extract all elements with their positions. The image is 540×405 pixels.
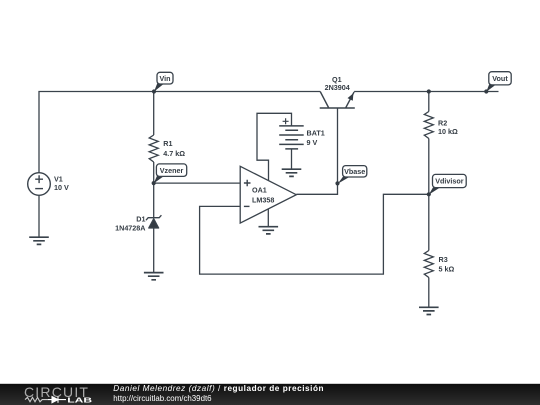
svg-text:OA1: OA1 xyxy=(252,186,267,195)
wire op-amp output to Q1 base xyxy=(296,108,337,194)
wire op-amp V+ pin to BAT1 positive xyxy=(257,113,292,181)
wire Vout rail to R2 top xyxy=(428,92,430,112)
svg-text:D1: D1 xyxy=(136,215,145,224)
label Q1 2N3904 xyxy=(325,75,350,92)
label OA1 LM358 xyxy=(252,186,274,205)
svg-text:R2: R2 xyxy=(438,118,447,127)
svg-text:5 kΩ: 5 kΩ xyxy=(439,264,455,273)
ground (V1) xyxy=(29,237,49,244)
wire D1 anode to ground xyxy=(153,229,155,273)
svg-text:4.7 kΩ: 4.7 kΩ xyxy=(163,149,185,158)
ground (D1) xyxy=(144,273,164,280)
wire BAT1 negative to ground xyxy=(291,149,293,169)
svg-text:1N4728A: 1N4728A xyxy=(115,223,145,232)
ground (BAT1) xyxy=(282,169,302,176)
svg-text:R3: R3 xyxy=(439,255,448,264)
wire R1 bottom to Vzener junction xyxy=(153,162,155,183)
junction dot (R2 top tap on Vout rail) xyxy=(427,89,431,93)
wire Vzener junction to D1 cathode xyxy=(153,183,155,218)
resistor R3 xyxy=(424,251,433,278)
wire Vdivisor junction to R3 top xyxy=(428,194,430,250)
svg-text:10 kΩ: 10 kΩ xyxy=(438,127,458,136)
label R3 5 kOhm xyxy=(439,255,455,273)
node Vzener xyxy=(152,164,187,185)
wire R2 bottom to Vdivisor junction xyxy=(428,139,430,195)
wire Q1 emitter to Vout xyxy=(354,91,498,93)
wire feedback: op-amp - input to Vdivisor xyxy=(200,194,429,274)
resistor R2 xyxy=(424,112,433,139)
svg-text:Vout: Vout xyxy=(492,74,508,83)
node Vin xyxy=(152,72,173,93)
node Vbase xyxy=(335,166,366,186)
label R2 10 kOhm xyxy=(438,118,458,136)
label R1 4.7 kOhm xyxy=(163,139,185,158)
wire R3 bottom to ground xyxy=(428,278,430,308)
svg-text:http://circuitlab.com/ch39dt6: http://circuitlab.com/ch39dt6 xyxy=(113,394,212,403)
op-amp OA1 xyxy=(240,166,296,223)
svg-text:Vin: Vin xyxy=(159,74,170,83)
transistor Q1 xyxy=(320,92,355,109)
svg-text:Vbase: Vbase xyxy=(344,167,365,176)
label D1 1N4728A xyxy=(115,215,145,233)
svg-text:Vzener: Vzener xyxy=(160,166,184,175)
svg-text:R1: R1 xyxy=(163,139,172,148)
ground (R3) xyxy=(419,307,439,314)
svg-text:2N3904: 2N3904 xyxy=(325,83,350,92)
svg-text:BAT1: BAT1 xyxy=(307,128,325,137)
svg-text:9 V: 9 V xyxy=(307,138,318,147)
wire op-amp V- pin to ground xyxy=(267,209,269,227)
node Vdivisor xyxy=(427,174,467,196)
label V1 10 V xyxy=(54,174,69,192)
wire V1 bottom to ground xyxy=(38,195,40,237)
CircuitLab logo xyxy=(24,384,93,405)
footer bar xyxy=(0,384,540,405)
resistor R1 xyxy=(149,135,158,162)
wire Vin junction to R1 top xyxy=(153,92,155,136)
wire Vzener to op-amp + input xyxy=(154,182,241,184)
node Vout xyxy=(484,72,511,94)
svg-text:Daniel Melendrez (dzalf) / reg: Daniel Melendrez (dzalf) / regulador de … xyxy=(113,384,324,393)
svg-text:V1: V1 xyxy=(54,174,63,183)
ground (OA1 V-) xyxy=(259,227,279,234)
wire top rail Vin to Q1 collector xyxy=(39,92,320,173)
svg-text:10 V: 10 V xyxy=(54,183,69,192)
label BAT1 9 V xyxy=(307,128,325,147)
battery BAT1 xyxy=(279,118,304,149)
svg-text:LAB: LAB xyxy=(67,395,93,404)
footer credits xyxy=(113,384,324,403)
zener diode D1 xyxy=(146,215,161,228)
voltage source V1 xyxy=(28,173,51,196)
svg-text:LM358: LM358 xyxy=(252,195,274,204)
svg-text:Vdivisor: Vdivisor xyxy=(435,177,464,186)
